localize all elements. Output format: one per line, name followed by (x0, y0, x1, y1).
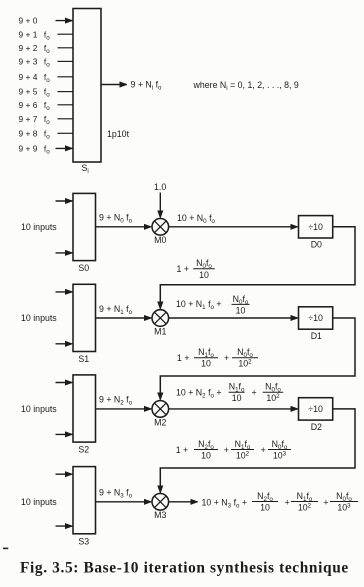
svg-text:10: 10 (199, 270, 209, 280)
svg-text:1 +: 1 + (177, 264, 189, 274)
label 9+N_1f_o (99, 304, 133, 316)
label S3 (78, 536, 89, 546)
divider D1 box (/10) (299, 307, 333, 329)
label 9+N_3f_o (99, 488, 133, 500)
svg-text:9 + 4 fo: 9 + 4 fo (19, 72, 51, 84)
svg-text:103: 103 (273, 450, 287, 460)
svg-text:10: 10 (201, 451, 211, 461)
svg-text:102: 102 (236, 450, 250, 460)
svg-text:9 + N0 fo: 9 + N0 fo (99, 213, 133, 225)
input 9+0f_o into S_i (19, 16, 72, 26)
svg-text:÷10: ÷10 (308, 313, 323, 323)
label 1.0 reference (154, 182, 166, 192)
svg-text:102: 102 (298, 502, 312, 512)
label M2 (154, 417, 166, 427)
wire S2 to M2 (96, 408, 151, 410)
svg-text:9 + 6 fo: 9 + 6 fo (19, 100, 51, 112)
svg-text:102: 102 (266, 393, 280, 403)
label 9+N_i f_o (131, 80, 163, 92)
svg-text:M3: M3 (154, 510, 166, 520)
svg-text:M0: M0 (154, 235, 166, 245)
label 10 inputs (row 3) (21, 497, 57, 507)
label S2 (78, 445, 89, 455)
svg-text:10: 10 (232, 393, 242, 403)
switch S_i box (1p10t selector) (73, 9, 101, 163)
wire M1 to D1 (169, 317, 298, 319)
feedback wire D2 to M3 (160, 409, 355, 492)
svg-text:9 + 0: 9 + 0 (19, 16, 38, 26)
input 9+9f_o into S_i (19, 144, 72, 156)
svg-text:S0: S0 (78, 263, 89, 273)
svg-text:÷10: ÷10 (308, 222, 323, 232)
svg-text:10 inputs: 10 inputs (21, 313, 57, 323)
svg-text:1 +: 1 + (177, 353, 189, 363)
label /10 in D0 (308, 222, 323, 232)
mixer M2 (152, 401, 169, 418)
label D1 (311, 331, 322, 341)
label M3 (154, 510, 166, 520)
label 1p10t (107, 129, 130, 139)
svg-text:9 + 5 fo: 9 + 5 fo (19, 87, 51, 99)
svg-text:D1: D1 (311, 331, 322, 341)
input 9+6f_o into S_i (19, 100, 74, 112)
svg-text:9 + N3 fo: 9 + N3 fo (99, 488, 133, 500)
label D2 (311, 422, 322, 432)
svg-text:9 + 3 fo: 9 + 3 fo (19, 57, 51, 69)
svg-text:D0: D0 (311, 240, 322, 250)
wire S3 to M3 (96, 501, 151, 503)
wire S0 to M0 (96, 226, 151, 228)
label 1 + N1fo/10 + N0fo/10^2 (177, 347, 258, 369)
svg-text:9 + Ni fo: 9 + Ni fo (131, 80, 163, 92)
svg-text:+: + (224, 353, 229, 363)
svg-text:10 + N0 fo: 10 + N0 fo (177, 213, 216, 225)
mixer M3 (152, 494, 169, 511)
svg-text:10 inputs: 10 inputs (21, 497, 57, 507)
svg-text:10 inputs: 10 inputs (21, 404, 57, 414)
selector S1 box (73, 284, 96, 351)
svg-text:10 inputs: 10 inputs (21, 222, 57, 232)
svg-text:1.0: 1.0 (154, 182, 166, 192)
label 10 + N3fo + N2fo/10 + N1fo/10^2 + N0fo/10^3 (202, 491, 359, 513)
input 9+2f_o into S_i (19, 43, 74, 55)
wire 1.0 into M0 (159, 193, 161, 218)
svg-text:+: + (224, 445, 229, 455)
label 10 inputs (row 0) (21, 222, 57, 232)
label 10+N_0f_o (177, 213, 216, 225)
svg-text:+: + (261, 445, 266, 455)
mixer M0 (152, 219, 169, 236)
svg-text:D2: D2 (311, 422, 322, 432)
input 9+7f_o into S_i (19, 114, 74, 126)
label 1 + N2fo/10 + N1fo/10^2 + N0fo/10^3 (176, 439, 291, 461)
svg-text:+: + (252, 387, 257, 397)
svg-text:10 + N2 fo +: 10 + N2 fo + (176, 387, 222, 399)
label /10 in D2 (308, 404, 323, 414)
label 10 inputs (row 2) (21, 404, 57, 414)
selector S0 box (73, 193, 96, 260)
svg-text:S2: S2 (78, 445, 89, 455)
svg-text:103: 103 (337, 502, 351, 512)
svg-text:S3: S3 (78, 536, 89, 546)
svg-text:Si: Si (82, 163, 89, 175)
svg-text:10: 10 (201, 359, 211, 369)
svg-text:10 + N3 fo +: 10 + N3 fo + (202, 497, 248, 509)
label M0 (154, 235, 166, 245)
input 9+5f_o into S_i (19, 87, 74, 99)
svg-text:M1: M1 (154, 326, 166, 336)
input 9+3f_o into S_i (19, 57, 74, 69)
label where N_i = 0,1,2,...,8,9 (193, 80, 299, 92)
svg-text:9 + 9 fo: 9 + 9 fo (19, 144, 51, 156)
output wire from M3 (169, 501, 198, 503)
svg-text:9 + 7 fo: 9 + 7 fo (19, 114, 51, 126)
selector S2 box (73, 375, 96, 442)
svg-text:where Ni = 0, 1, 2, . . ., 8,: where Ni = 0, 1, 2, . . ., 8, 9 (193, 80, 299, 92)
mixer M1 (152, 310, 169, 327)
feedback wire D1 to M2 (160, 318, 355, 399)
wire S1 to M1 (96, 317, 151, 319)
input arrows into S0 (56, 201, 72, 253)
label 1 + N0fo/10 (177, 258, 215, 280)
divider D2 box (/10) (299, 398, 333, 420)
label 10 + N1fo + N0fo/10 (176, 294, 250, 316)
svg-text:+: + (285, 497, 290, 507)
label 10 + N2fo + N1fo/10 + N0fo/10^2 (176, 382, 283, 404)
svg-text:102: 102 (238, 359, 252, 369)
input arrows into S2 (56, 383, 72, 435)
input 9+4f_o into S_i (19, 72, 74, 84)
margin tick (3, 547, 8, 549)
label S_i (82, 163, 89, 175)
svg-text:9 + N2 fo: 9 + N2 fo (99, 395, 133, 407)
label 9+N_0f_o (99, 213, 133, 225)
input 9+8f_o into S_i (19, 128, 74, 140)
feedback wire D0 to M1 (160, 227, 355, 309)
label 10 inputs (row 1) (21, 313, 57, 323)
label D0 (311, 240, 322, 250)
label M1 (154, 326, 166, 336)
svg-text:10: 10 (236, 305, 246, 315)
svg-text:M2: M2 (154, 417, 166, 427)
svg-text:9 + 2 fo: 9 + 2 fo (19, 43, 51, 55)
svg-text:10: 10 (260, 503, 270, 513)
svg-text:9 + 1 fo: 9 + 1 fo (19, 29, 51, 41)
svg-text:+: + (323, 497, 328, 507)
caption Fig 3.5 (20, 560, 349, 577)
label S1 (78, 354, 89, 364)
svg-text:10 + N1 fo +: 10 + N1 fo + (176, 299, 222, 311)
input arrows into S1 (56, 292, 72, 344)
svg-text:÷10: ÷10 (308, 404, 323, 414)
svg-text:1p10t: 1p10t (107, 129, 130, 139)
wire M2 to D2 (169, 408, 298, 410)
wire M0 to D0 (169, 226, 298, 228)
svg-text:Fig. 3.5: Base-10 iteration sy: Fig. 3.5: Base-10 iteration synthesis te… (20, 560, 349, 577)
input 9+1f_o into S_i (19, 29, 74, 41)
label S0 (78, 263, 89, 273)
svg-text:1 +: 1 + (176, 445, 188, 455)
svg-text:9 + 8 fo: 9 + 8 fo (19, 128, 51, 140)
svg-text:S1: S1 (78, 354, 89, 364)
svg-text:9 + N1 fo: 9 + N1 fo (99, 304, 133, 316)
label 9+N_2f_o (99, 395, 133, 407)
input arrows into S3 (56, 474, 72, 526)
divider D0 box (/10) (299, 216, 333, 238)
selector S3 box (73, 467, 96, 534)
output wire 9+N_i f_o from S_i (101, 84, 127, 86)
label /10 in D1 (308, 313, 323, 323)
